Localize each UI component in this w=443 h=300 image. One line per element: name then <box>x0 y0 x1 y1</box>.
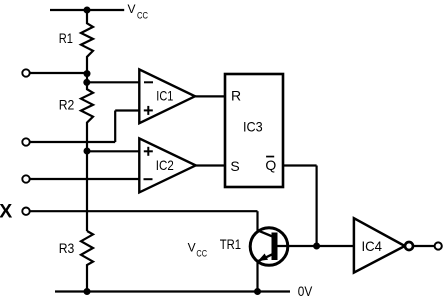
svg-text:IC2: IC2 <box>156 157 174 173</box>
svg-text:R1: R1 <box>59 30 73 46</box>
svg-text:V: V <box>128 2 136 16</box>
svg-text:X: X <box>0 201 12 223</box>
wire X down to TR1 collector <box>256 211 258 231</box>
op-amp IC1 (comparator) <box>139 69 195 123</box>
terminal output <box>435 242 442 249</box>
junction emitter / 0V rail <box>254 288 261 295</box>
terminal T1 (control input) <box>22 69 29 76</box>
IC4 inversion bubble <box>405 242 413 250</box>
resistor R1 <box>81 10 93 82</box>
IC1 non-inverting pin mark <box>144 106 153 115</box>
IC2 non-inverting pin mark <box>144 147 153 156</box>
resistor R2 <box>81 82 93 151</box>
wire Q-bar down to output node <box>316 166 318 247</box>
junction divider to IC2 non-inverting input <box>84 148 91 155</box>
wire IC2 output to S input <box>196 164 225 166</box>
svg-text:R: R <box>231 87 241 103</box>
0V rail <box>55 290 290 292</box>
wire T2 riser <box>114 111 116 143</box>
pin Q-bar label <box>265 156 276 174</box>
wire IC1 output to R input <box>195 95 225 97</box>
transistor TR1 <box>250 228 288 266</box>
svg-text:TR1: TR1 <box>220 236 241 252</box>
flip-flop IC3 <box>225 74 283 187</box>
junction R3 to 0V rail <box>84 288 91 295</box>
svg-text:R3: R3 <box>59 240 75 256</box>
wire divider chain down to R3 <box>86 151 88 231</box>
terminal T2 (threshold input) <box>22 138 29 145</box>
wire divider to IC1 inverting input <box>87 81 139 83</box>
wire TR1 base to IC4 input <box>278 245 354 247</box>
svg-text:IC1: IC1 <box>156 88 173 104</box>
svg-text:0V: 0V <box>298 283 313 299</box>
wire divider to IC2 non-inverting input <box>87 150 139 152</box>
terminal T3 (trigger input) <box>22 175 29 182</box>
wire X horizontal <box>31 210 258 212</box>
junction divider to IC1 inverting input <box>83 79 90 86</box>
wire T2 to IC1 non-inverting input <box>115 109 139 111</box>
svg-text:CC: CC <box>196 249 207 260</box>
wire T3 to IC2 inverting input <box>31 178 140 180</box>
op-amp IC2 (comparator) <box>139 138 195 192</box>
junction Q-bar / TR1 base / IC4 <box>313 243 320 250</box>
wire TR1 emitter to 0V rail <box>256 261 258 292</box>
wire Q-bar output horizontal <box>283 164 317 166</box>
wire T2 horizontal <box>31 141 116 143</box>
IC2 inverting pin mark <box>144 178 153 180</box>
wire IC4 output <box>413 245 434 247</box>
Vcc label <box>128 2 149 21</box>
svg-text:IC4: IC4 <box>362 238 383 254</box>
svg-text:R2: R2 <box>59 96 75 112</box>
junction T1/divider <box>84 70 91 77</box>
svg-text:S: S <box>230 158 239 174</box>
Vcc label near TR1 <box>188 240 207 259</box>
svg-text:CC: CC <box>137 10 148 21</box>
Vcc supply rail <box>50 9 124 11</box>
inverter IC4 <box>354 218 405 272</box>
svg-text:IC3: IC3 <box>243 119 263 135</box>
svg-text:Q: Q <box>265 157 276 173</box>
terminal X (discharge) <box>22 208 29 215</box>
resistor R3 <box>81 231 93 292</box>
junction on Vcc rail <box>84 7 91 14</box>
wire T1 to divider <box>31 72 88 74</box>
IC1 inverting pin mark <box>144 81 153 83</box>
svg-text:V: V <box>188 240 196 254</box>
